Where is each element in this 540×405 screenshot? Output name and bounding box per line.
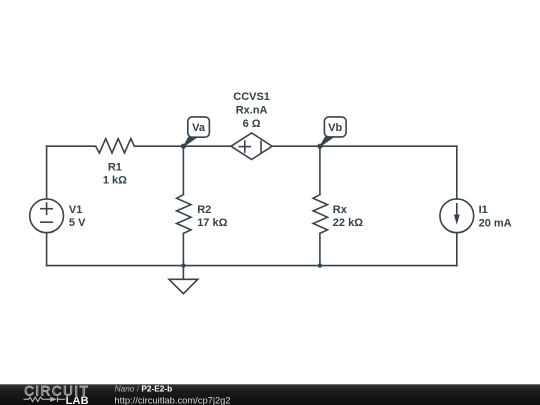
node flag Vb bbox=[320, 117, 346, 147]
svg-text:5 V: 5 V bbox=[69, 217, 86, 229]
current source I1 bbox=[440, 199, 474, 233]
wire left rail lower bbox=[46, 233, 48, 266]
wire left rail upper bbox=[46, 146, 48, 199]
svg-text:6 Ω: 6 Ω bbox=[243, 118, 261, 130]
dependent source CCVS1 bbox=[231, 133, 272, 160]
wire top-left segment bbox=[47, 145, 96, 147]
node B junction dot bbox=[317, 144, 322, 149]
label R1 value bbox=[103, 161, 127, 186]
svg-text:CCVS1: CCVS1 bbox=[233, 91, 270, 103]
wire CCVS1 to node B bbox=[272, 145, 320, 147]
resistor R2 bbox=[177, 195, 191, 234]
wire right rail lower bbox=[456, 233, 458, 266]
node A junction dot bbox=[181, 144, 186, 149]
wire right rail upper bbox=[456, 146, 458, 199]
svg-text:22 kΩ: 22 kΩ bbox=[333, 217, 363, 229]
svg-text:I1: I1 bbox=[479, 204, 488, 216]
label I1 value bbox=[479, 204, 512, 229]
label R2 value bbox=[197, 204, 227, 229]
ground bbox=[169, 266, 198, 294]
resistor Rx bbox=[313, 195, 327, 234]
label Rx value bbox=[333, 204, 363, 229]
wire R1 to node A bbox=[134, 145, 183, 147]
label V1 value bbox=[69, 204, 86, 229]
svg-text:1 kΩ: 1 kΩ bbox=[103, 175, 127, 187]
svg-text:Vb: Vb bbox=[328, 122, 342, 134]
junction dot bottom Rx bbox=[318, 263, 322, 267]
svg-text:20 mA: 20 mA bbox=[479, 217, 512, 229]
label CCVS1 name and value bbox=[233, 91, 270, 130]
svg-text:Nano / P2-E2-b: Nano / P2-E2-b bbox=[115, 384, 173, 394]
resistor R1 bbox=[96, 139, 135, 153]
svg-text:http://circuitlab.com/cp7j2g2: http://circuitlab.com/cp7j2g2 bbox=[114, 395, 230, 405]
svg-text:Va: Va bbox=[192, 122, 206, 134]
svg-text:17 kΩ: 17 kΩ bbox=[197, 217, 227, 229]
svg-text:Rx.nA: Rx.nA bbox=[236, 105, 268, 117]
svg-text:R2: R2 bbox=[197, 204, 211, 216]
svg-text:LAB: LAB bbox=[66, 395, 89, 405]
wire bottom rail bbox=[47, 265, 457, 267]
wire node B to top-right corner bbox=[320, 145, 457, 147]
node flag Va bbox=[183, 117, 209, 147]
wire Rx bottom lead bbox=[319, 233, 321, 265]
junction dot bottom R2 bbox=[181, 263, 185, 267]
wire R2 bottom lead bbox=[182, 233, 184, 265]
wire R2 top lead bbox=[182, 146, 184, 194]
voltage source V1 bbox=[30, 199, 64, 233]
logo resistor-diode symbol bbox=[24, 397, 66, 402]
wire Rx top lead bbox=[319, 146, 321, 194]
svg-text:R1: R1 bbox=[108, 161, 122, 173]
svg-text:V1: V1 bbox=[69, 204, 82, 216]
svg-text:Rx: Rx bbox=[333, 204, 348, 216]
wire node A to CCVS1 bbox=[183, 145, 231, 147]
